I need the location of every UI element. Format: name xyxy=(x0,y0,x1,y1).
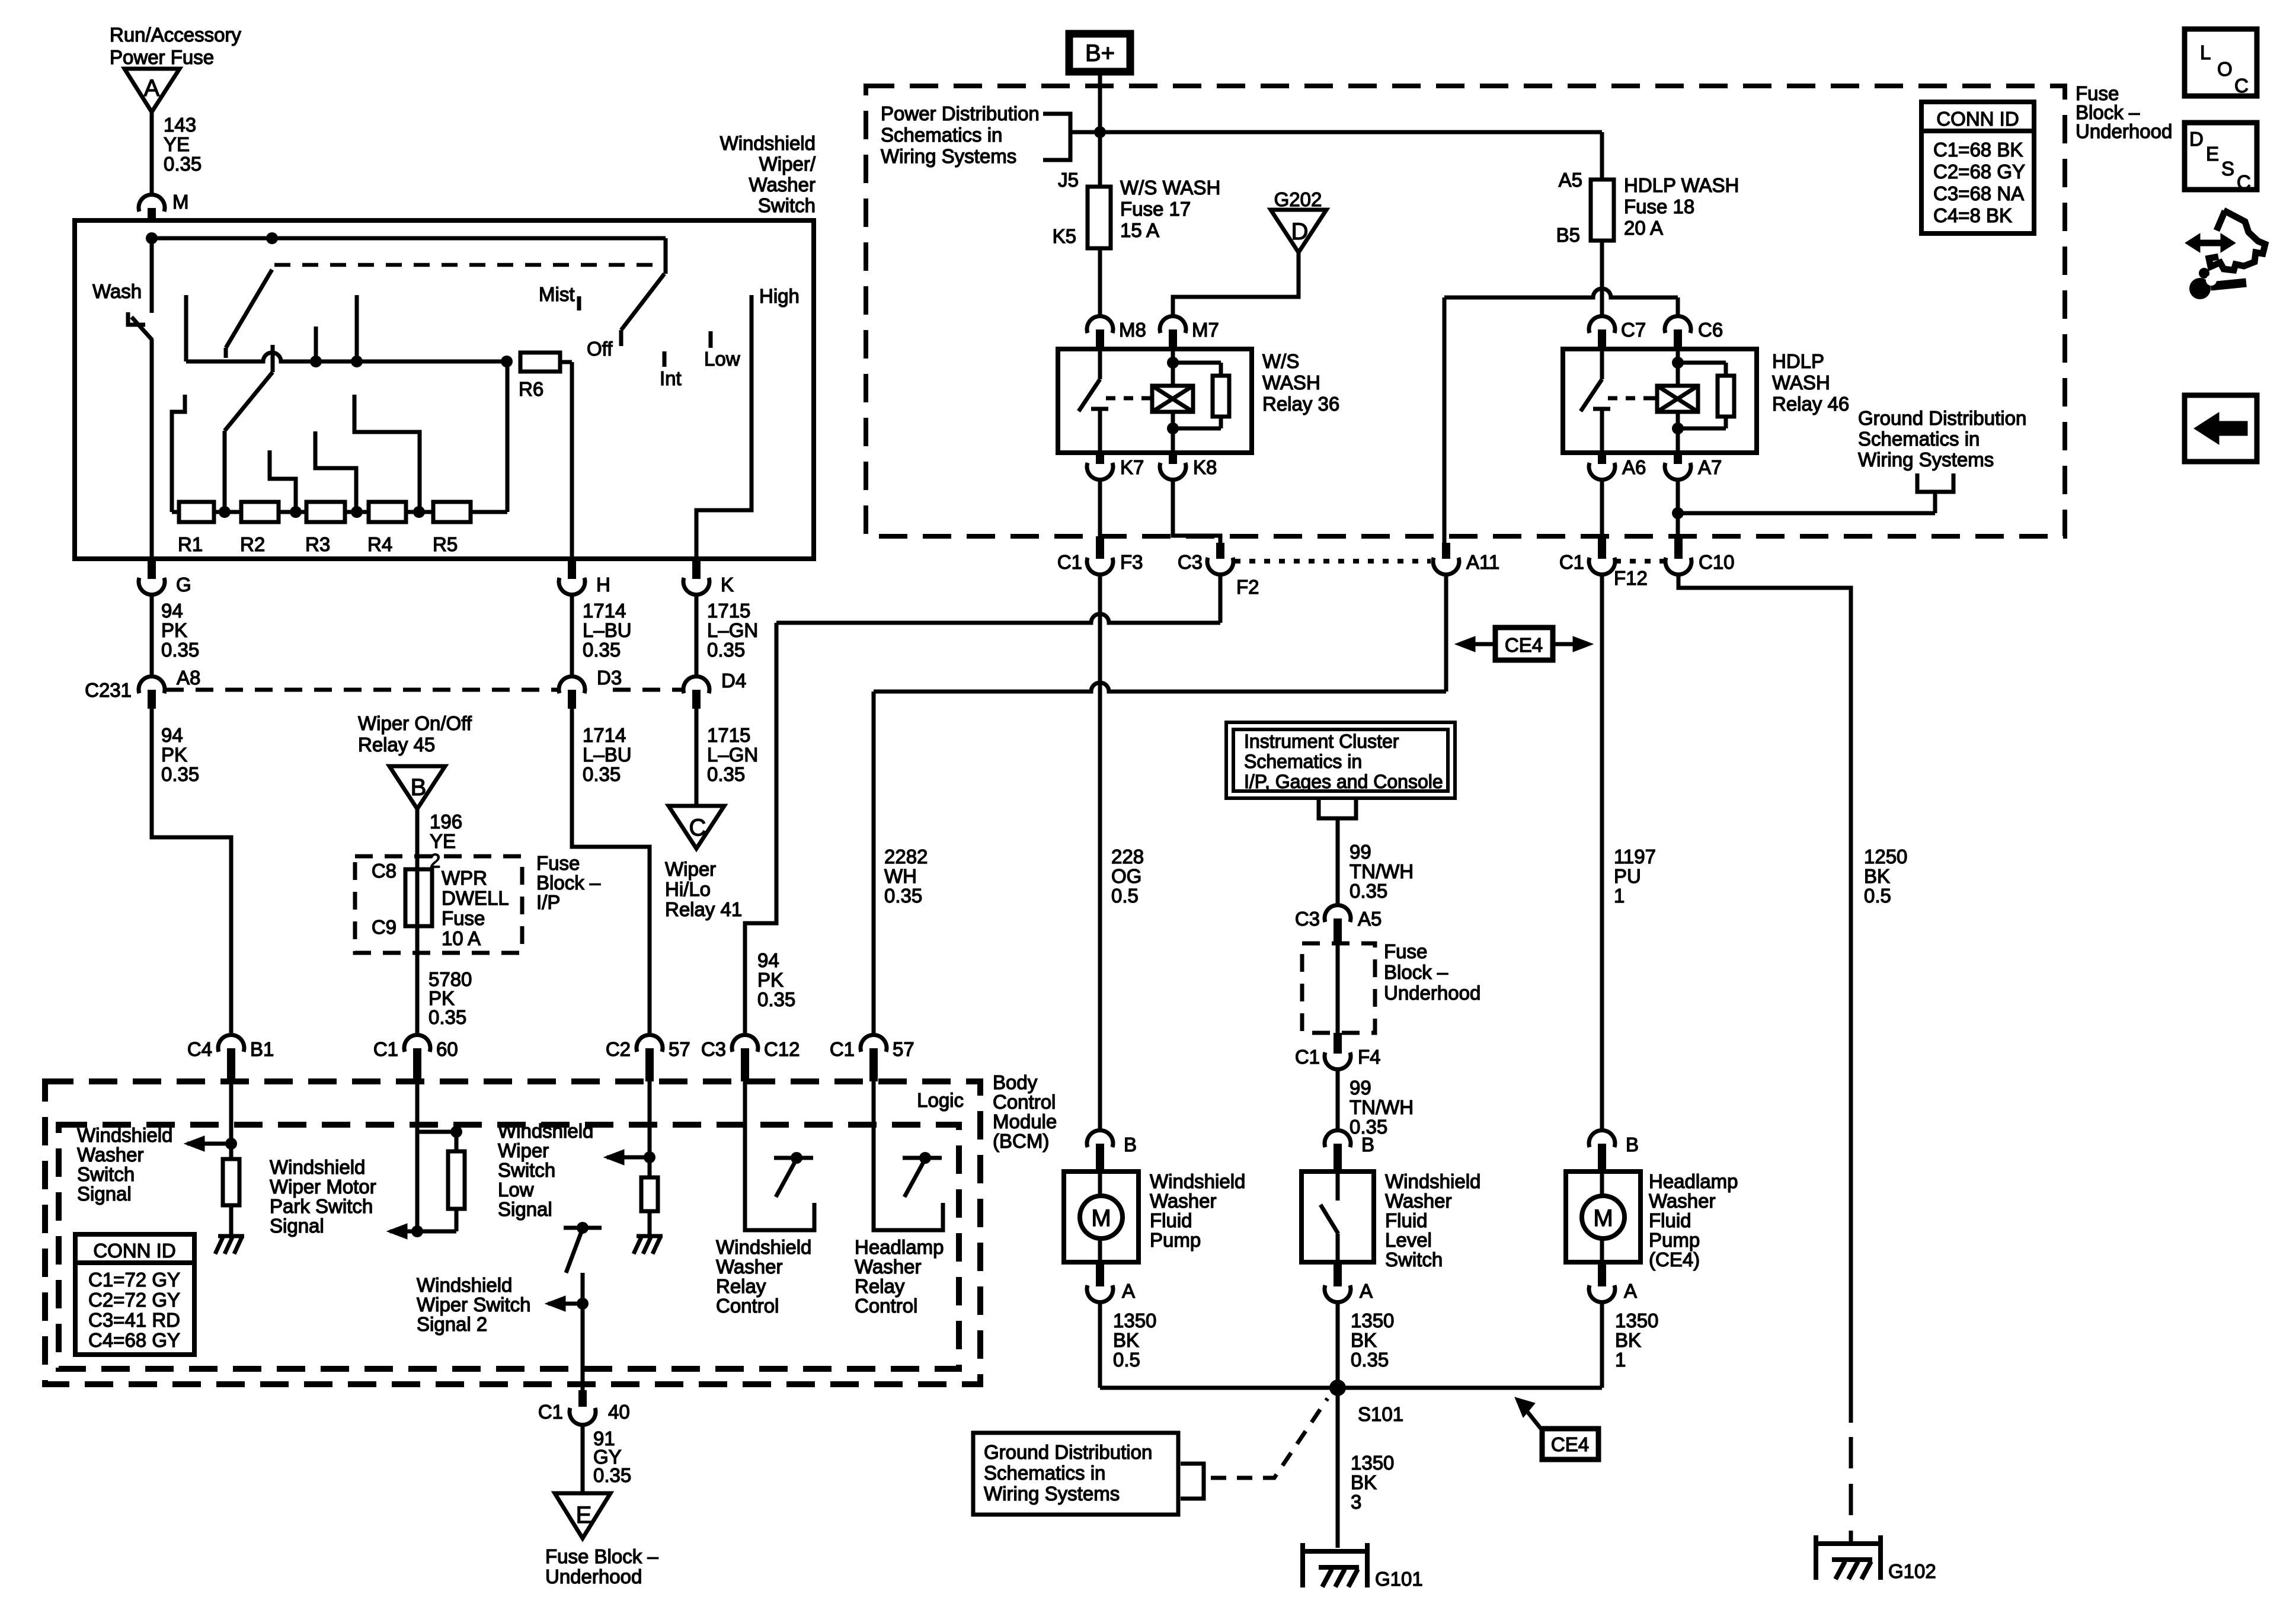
svg-text:R3: R3 xyxy=(305,533,330,555)
headlamp washer fluid pump xyxy=(1566,1172,1641,1262)
svg-text:M: M xyxy=(1593,1205,1613,1231)
svg-text:C1: C1 xyxy=(1057,551,1082,573)
switch internal bus wire xyxy=(146,232,666,244)
label Mist xyxy=(539,283,579,311)
svg-text:D3: D3 xyxy=(597,667,622,689)
svg-text:C: C xyxy=(689,815,706,841)
svg-text:B5: B5 xyxy=(1556,224,1580,246)
W/S WASH relay 36 box xyxy=(1058,349,1252,453)
delay contact stubs xyxy=(316,295,357,361)
connector G xyxy=(139,559,191,596)
svg-text:E: E xyxy=(2206,143,2219,165)
dashed mist link xyxy=(274,263,662,267)
wire F2 to BCM C12 (94 PK 0.35) xyxy=(745,574,1220,1033)
wire B+ to fuse J5 xyxy=(1094,72,1106,187)
label Fuse Block - Underhood (bottom) xyxy=(545,1545,658,1587)
dotted line C3 to A11 xyxy=(1235,559,1431,564)
wire 99 TN/WH 0.35 (upper) xyxy=(1338,826,1414,905)
wire 1350 BK 0.5 xyxy=(1100,1302,1156,1388)
connector A (headlamp pump) xyxy=(1589,1262,1637,1302)
svg-text:Underhood: Underhood xyxy=(545,1566,642,1587)
park switch resistor xyxy=(448,1132,465,1231)
marker CE4 (ground bus) xyxy=(1515,1397,1598,1459)
ground G102 xyxy=(1814,1535,1936,1582)
svg-text:PK: PK xyxy=(161,619,187,641)
svg-text:C6: C6 xyxy=(1698,319,1723,341)
ground distribution bracket (bottom) xyxy=(1181,1464,1204,1499)
off blade xyxy=(621,274,664,346)
svg-text:C2: C2 xyxy=(606,1038,631,1060)
relay 36 resistor xyxy=(1173,363,1229,428)
svg-text:R5: R5 xyxy=(433,533,458,555)
svg-text:BK: BK xyxy=(1864,865,1890,887)
svg-text:Level: Level xyxy=(1385,1229,1432,1251)
label Body Control Module (BCM) xyxy=(993,1071,1057,1152)
svg-text:A: A xyxy=(144,75,160,101)
svg-text:W/S: W/S xyxy=(1262,350,1299,372)
svg-text:0.35: 0.35 xyxy=(583,639,621,661)
fuse block underhood small dashed box xyxy=(1302,943,1375,1033)
svg-text:Low: Low xyxy=(498,1179,534,1201)
label Windshield Wiper Switch Signal 2 xyxy=(417,1274,531,1335)
wire 1350 BK 1 xyxy=(1602,1302,1658,1388)
svg-text:C3: C3 xyxy=(701,1038,726,1060)
svg-text:K7: K7 xyxy=(1120,456,1144,478)
resistor R1 xyxy=(178,502,214,555)
WPR DWELL fuse 10A xyxy=(405,869,432,1033)
svg-text:Wiring Systems: Wiring Systems xyxy=(1858,449,1994,470)
label Power Distribution Schematics in Wiring Systems xyxy=(881,103,1040,167)
svg-text:WASH: WASH xyxy=(1262,372,1320,393)
svg-text:94: 94 xyxy=(757,949,779,971)
svg-text:C1: C1 xyxy=(1559,551,1584,573)
label Logic xyxy=(917,1089,964,1111)
logic inner dashed box xyxy=(59,1125,959,1369)
connector C3/A5 xyxy=(1295,905,1382,943)
svg-text:1350: 1350 xyxy=(1113,1310,1156,1331)
svg-text:Relay 46: Relay 46 xyxy=(1772,393,1849,415)
svg-text:10 A: 10 A xyxy=(442,927,481,949)
svg-text:0.5: 0.5 xyxy=(1864,885,1891,907)
connector BCM C3/C12 xyxy=(701,1035,800,1081)
svg-text:Schematics in: Schematics in xyxy=(1858,428,1980,450)
svg-text:Hi/Lo: Hi/Lo xyxy=(665,878,711,900)
label Off xyxy=(587,338,613,360)
instrument cluster bracket xyxy=(1319,798,1356,826)
svg-text:L: L xyxy=(2200,41,2211,63)
svg-text:1715: 1715 xyxy=(707,600,750,622)
svg-text:Windshield: Windshield xyxy=(77,1124,172,1146)
svg-text:(BCM): (BCM) xyxy=(993,1130,1049,1152)
fuse block CONN ID table xyxy=(1921,102,2034,233)
svg-text:F3: F3 xyxy=(1120,551,1143,573)
connector A6 xyxy=(1589,453,1646,480)
connector C7 xyxy=(1589,316,1646,349)
svg-text:BK: BK xyxy=(1351,1329,1377,1351)
svg-text:L–BU: L–BU xyxy=(583,744,632,766)
connector C1/F4 xyxy=(1295,1033,1381,1070)
svg-text:Fuse: Fuse xyxy=(536,852,580,874)
wire D to M7 xyxy=(1173,252,1299,316)
label C8 xyxy=(372,860,396,882)
svg-text:57: 57 xyxy=(669,1038,690,1060)
svg-text:Washer: Washer xyxy=(1385,1190,1451,1212)
svg-text:CONN ID: CONN ID xyxy=(93,1240,175,1262)
contact finger 1 xyxy=(172,395,185,512)
body control module outer dashed box xyxy=(45,1081,980,1384)
svg-text:Mist: Mist xyxy=(539,283,575,305)
svg-text:Switch: Switch xyxy=(77,1163,135,1185)
svg-text:C3=68 NA: C3=68 NA xyxy=(1933,183,2024,204)
svg-text:Ground Distribution: Ground Distribution xyxy=(984,1441,1152,1463)
low contact xyxy=(704,331,740,370)
dotted line F12 to C10 xyxy=(1615,559,1664,564)
svg-text:C231: C231 xyxy=(85,679,132,701)
svg-text:Windshield: Windshield xyxy=(498,1120,593,1142)
svg-text:Washer: Washer xyxy=(749,174,816,196)
fuse block I/P dashed box xyxy=(355,856,522,953)
svg-text:WH: WH xyxy=(884,865,917,887)
connector M7 xyxy=(1160,316,1219,349)
svg-text:L–GN: L–GN xyxy=(707,619,758,641)
svg-text:57: 57 xyxy=(893,1038,914,1060)
svg-text:Fluid: Fluid xyxy=(1150,1209,1192,1231)
resistor feed line xyxy=(186,295,513,367)
svg-text:WASH: WASH xyxy=(1772,372,1830,393)
windshield washer fluid level switch xyxy=(1302,1172,1374,1262)
svg-text:Schematics in: Schematics in xyxy=(881,124,1002,146)
svg-text:Block –: Block – xyxy=(536,872,601,894)
contact finger 4 xyxy=(354,395,420,512)
power distribution bracket xyxy=(1043,114,1070,160)
svg-text:Washer: Washer xyxy=(716,1256,782,1278)
svg-text:Relay 45: Relay 45 xyxy=(358,734,435,756)
label C9 xyxy=(372,916,396,938)
resistor R3 xyxy=(305,502,345,555)
svg-text:Signal: Signal xyxy=(77,1183,132,1205)
svg-text:99: 99 xyxy=(1350,841,1371,863)
svg-text:Fuse Block –: Fuse Block – xyxy=(545,1545,658,1567)
svg-text:228: 228 xyxy=(1111,846,1144,868)
svg-text:1: 1 xyxy=(1615,1349,1626,1371)
svg-text:C: C xyxy=(2234,75,2249,97)
svg-text:C3: C3 xyxy=(1295,908,1320,930)
svg-text:Wiper On/Off: Wiper On/Off xyxy=(358,712,472,734)
connector BCM C1/57 xyxy=(830,1035,914,1081)
connector B (washer pump) xyxy=(1087,1130,1137,1172)
svg-text:196: 196 xyxy=(430,811,462,833)
svg-text:TN/WH: TN/WH xyxy=(1350,1096,1414,1118)
wiper switch signal 2 switch xyxy=(564,1222,602,1390)
svg-text:143: 143 xyxy=(164,114,196,136)
svg-text:BK: BK xyxy=(1351,1471,1377,1493)
svg-text:0.35: 0.35 xyxy=(1350,880,1387,902)
svg-text:R1: R1 xyxy=(178,533,203,555)
svg-text:H: H xyxy=(596,574,610,596)
svg-text:C4=68 GY: C4=68 GY xyxy=(88,1329,180,1351)
svg-text:Control: Control xyxy=(716,1295,779,1317)
wire 143 YE 0.35 xyxy=(152,112,202,196)
svg-text:O: O xyxy=(2217,58,2233,80)
ground distribution branch xyxy=(1678,473,1953,513)
label Fuse Block - Underhood (top right) xyxy=(2076,82,2172,142)
wiper motor park switch signal wire xyxy=(417,1081,462,1231)
svg-text:0.35: 0.35 xyxy=(161,763,199,785)
svg-text:Relay: Relay xyxy=(855,1275,905,1297)
B+ battery feed box xyxy=(1069,34,1130,72)
svg-text:Off: Off xyxy=(587,338,613,360)
svg-text:J5: J5 xyxy=(1058,169,1079,191)
svg-text:Signal: Signal xyxy=(498,1198,552,1220)
svg-text:Headlamp: Headlamp xyxy=(855,1236,944,1258)
svg-text:Block –: Block – xyxy=(1384,961,1448,983)
svg-text:I/P: I/P xyxy=(536,891,560,913)
svg-text:R4: R4 xyxy=(367,533,392,555)
svg-text:C3: C3 xyxy=(1178,551,1203,573)
svg-text:C1=72 GY: C1=72 GY xyxy=(88,1269,180,1291)
svg-text:Module: Module xyxy=(993,1110,1057,1132)
BCM CONN ID table xyxy=(75,1234,194,1355)
svg-text:1714: 1714 xyxy=(583,724,626,746)
svg-text:Instrument Cluster: Instrument Cluster xyxy=(1244,731,1399,752)
legend DESC box xyxy=(2185,123,2257,193)
connector K xyxy=(683,559,734,596)
svg-text:D: D xyxy=(1291,219,1309,245)
fuse symbol E (Fuse Block Underhood) xyxy=(555,1493,610,1538)
svg-text:Windshield: Windshield xyxy=(1150,1170,1245,1192)
svg-text:94: 94 xyxy=(161,724,183,746)
svg-text:1250: 1250 xyxy=(1864,846,1907,868)
svg-text:C2=72 GY: C2=72 GY xyxy=(88,1289,180,1311)
wire 94 PK 0.35 to BCM xyxy=(152,709,231,1033)
power bus wire xyxy=(1070,132,1602,180)
connector C3/F2 xyxy=(1178,543,1259,598)
wire A7 to C10 xyxy=(1672,479,1684,536)
svg-text:Schematics in: Schematics in xyxy=(984,1462,1105,1484)
connector line C231 dashed xyxy=(166,688,683,692)
label Windshield Wiper Motor Park Switch Signal xyxy=(270,1156,376,1237)
high wire xyxy=(696,295,752,558)
svg-text:C1: C1 xyxy=(830,1038,855,1060)
svg-text:YE: YE xyxy=(164,133,190,155)
svg-text:BK: BK xyxy=(1113,1329,1139,1351)
label Windshield Washer Switch Signal xyxy=(77,1124,172,1205)
svg-text:L–GN: L–GN xyxy=(707,744,758,766)
svg-text:K5: K5 xyxy=(1053,225,1076,247)
legend LOC box xyxy=(2185,29,2257,97)
wire 1714 L-BU 0.35 to BCM xyxy=(572,709,650,1033)
legend back-arrow box xyxy=(2185,395,2257,462)
svg-text:Wiper/: Wiper/ xyxy=(759,153,816,175)
label Windshield Washer Relay Control xyxy=(716,1236,811,1317)
mist blade xyxy=(226,270,272,358)
svg-text:Windshield: Windshield xyxy=(716,1236,811,1258)
windshield washer switch signal wire xyxy=(184,1081,237,1159)
connector C1/F12 xyxy=(1559,536,1648,589)
svg-text:G101: G101 xyxy=(1375,1568,1423,1590)
fuse 18 HDLP WASH xyxy=(1556,169,1739,246)
svg-text:C1: C1 xyxy=(538,1401,563,1423)
connector C6 xyxy=(1665,316,1723,349)
label G202 xyxy=(1274,188,1322,210)
svg-text:R2: R2 xyxy=(240,533,265,555)
connector C1/F3 xyxy=(1057,536,1143,575)
svg-text:Wash: Wash xyxy=(92,280,142,302)
svg-text:C8: C8 xyxy=(372,860,396,882)
svg-text:A11: A11 xyxy=(1466,551,1499,573)
svg-text:0.35: 0.35 xyxy=(164,153,202,175)
svg-text:HDLP WASH: HDLP WASH xyxy=(1624,174,1739,196)
power feed label Run/Accessory Power Fuse xyxy=(110,24,241,68)
svg-text:Wiring Systems: Wiring Systems xyxy=(984,1483,1120,1505)
svg-text:PK: PK xyxy=(161,744,187,766)
relay 36 coil xyxy=(1145,349,1193,453)
svg-text:Signal: Signal xyxy=(270,1215,324,1237)
wire 1715 L-GN 0.35 (K) xyxy=(696,594,758,677)
svg-text:C12: C12 xyxy=(764,1038,800,1060)
relay 46 link xyxy=(1608,396,1652,401)
connector C10 xyxy=(1665,536,1735,575)
wire F12 to headlamp pump (1197 PU 1) xyxy=(1602,574,1656,1131)
svg-text:1197: 1197 xyxy=(1614,846,1656,868)
svg-text:M7: M7 xyxy=(1192,319,1219,341)
svg-text:20 A: 20 A xyxy=(1624,217,1663,239)
svg-text:TN/WH: TN/WH xyxy=(1350,860,1414,882)
svg-text:C10: C10 xyxy=(1699,551,1735,573)
svg-text:Fluid: Fluid xyxy=(1385,1209,1428,1231)
wash switch wire xyxy=(150,238,154,313)
wiper switch low signal wire xyxy=(604,1081,655,1177)
svg-text:Ground Distribution: Ground Distribution xyxy=(1858,407,2026,429)
wire K7 to F3 xyxy=(1098,479,1102,536)
svg-text:1350: 1350 xyxy=(1351,1310,1394,1331)
wire 94 PK 0.35 (G) xyxy=(152,594,199,677)
relay 46 switch xyxy=(1581,349,1610,453)
svg-text:Relay: Relay xyxy=(716,1275,766,1297)
svg-text:F4: F4 xyxy=(1358,1046,1381,1068)
svg-text:F2: F2 xyxy=(1236,576,1259,598)
connector C231 pin A8 xyxy=(139,667,200,709)
wire K8 to F2 xyxy=(1173,479,1220,543)
svg-text:Fuse 17: Fuse 17 xyxy=(1120,198,1191,220)
svg-text:Windshield: Windshield xyxy=(270,1156,365,1178)
svg-text:Underhood: Underhood xyxy=(2076,120,2172,142)
svg-text:Run/Accessory: Run/Accessory xyxy=(110,24,241,46)
label Headlamp Washer Relay Control xyxy=(855,1236,944,1317)
svg-text:A: A xyxy=(1122,1280,1135,1302)
label Windshield Washer Fluid Level Switch xyxy=(1385,1170,1480,1270)
resistor R6 xyxy=(519,353,572,400)
svg-text:PU: PU xyxy=(1614,865,1641,887)
connector C231 pin D4 xyxy=(683,670,746,709)
svg-text:Power Distribution: Power Distribution xyxy=(881,103,1040,124)
svg-text:Windshield: Windshield xyxy=(417,1274,512,1296)
resistor R4 xyxy=(367,502,406,555)
svg-text:Schematics in: Schematics in xyxy=(1244,751,1362,772)
svg-text:L–BU: L–BU xyxy=(583,619,632,641)
svg-text:Washer: Washer xyxy=(77,1144,143,1166)
relay 36 switch xyxy=(1079,349,1108,453)
washer signal ground xyxy=(215,1205,244,1254)
fuse 17 W/S WASH xyxy=(1053,169,1221,248)
svg-text:Wiring Systems: Wiring Systems xyxy=(881,145,1016,167)
svg-text:Logic: Logic xyxy=(917,1089,964,1111)
svg-text:WPR: WPR xyxy=(442,867,487,889)
svg-text:99: 99 xyxy=(1350,1077,1371,1099)
svg-text:A6: A6 xyxy=(1622,456,1646,478)
svg-text:M: M xyxy=(172,191,189,213)
svg-text:Headlamp: Headlamp xyxy=(1649,1170,1738,1192)
svg-text:Control: Control xyxy=(855,1295,917,1317)
svg-text:I/P, Gages and Console: I/P, Gages and Console xyxy=(1244,771,1443,792)
svg-text:K: K xyxy=(721,574,734,596)
svg-text:3: 3 xyxy=(1351,1491,1361,1513)
label Wash xyxy=(92,280,142,302)
connector B (headlamp pump) xyxy=(1589,1130,1639,1172)
wire 1350 BK 3 xyxy=(1338,1388,1394,1548)
svg-text:0.35: 0.35 xyxy=(583,763,621,785)
svg-text:C7: C7 xyxy=(1621,319,1646,341)
windshield wiper/washer switch box xyxy=(75,220,814,559)
washer signal resistor xyxy=(223,1159,239,1205)
svg-text:0.35: 0.35 xyxy=(161,639,199,661)
svg-text:0.35: 0.35 xyxy=(707,639,745,661)
wire F3 to washer pump (228 OG 0.5) xyxy=(1100,574,1144,1131)
HDLP WASH relay 46 box xyxy=(1563,349,1757,453)
svg-text:Fuse: Fuse xyxy=(1384,940,1427,962)
svg-text:S101: S101 xyxy=(1358,1403,1403,1425)
windshield washer relay control switch xyxy=(745,1081,814,1230)
svg-text:(CE4): (CE4) xyxy=(1649,1249,1700,1270)
instrument cluster box xyxy=(1226,722,1455,798)
svg-text:Switch: Switch xyxy=(498,1159,555,1181)
connector K7 xyxy=(1087,453,1144,480)
svg-text:C4: C4 xyxy=(187,1038,212,1060)
svg-text:Pump: Pump xyxy=(1150,1229,1201,1251)
svg-text:C1: C1 xyxy=(373,1038,398,1060)
relay 46 resistor xyxy=(1678,363,1734,428)
connector B (level switch) xyxy=(1325,1130,1374,1172)
svg-text:A5: A5 xyxy=(1559,169,1582,191)
svg-text:D: D xyxy=(2189,128,2204,150)
wire fuse17 to M8 xyxy=(1098,248,1102,316)
svg-text:K8: K8 xyxy=(1193,456,1217,478)
svg-text:C1: C1 xyxy=(1295,1046,1320,1068)
resistor R5 xyxy=(433,502,471,555)
svg-text:1715: 1715 xyxy=(707,724,750,746)
svg-text:D4: D4 xyxy=(721,670,746,692)
svg-text:High: High xyxy=(759,285,800,307)
svg-text:Washer: Washer xyxy=(1649,1190,1715,1212)
svg-text:S: S xyxy=(2221,158,2234,180)
svg-text:A8: A8 xyxy=(177,667,200,689)
wire 99 TN/WH 0.35 (lower) xyxy=(1338,1069,1414,1138)
svg-text:Fuse 18: Fuse 18 xyxy=(1624,196,1694,217)
wire 1715 L-GN 0.35 to relay C xyxy=(696,709,758,806)
svg-text:Relay 36: Relay 36 xyxy=(1262,393,1339,415)
svg-text:Pump: Pump xyxy=(1649,1229,1700,1251)
fuse block underhood dashed box xyxy=(866,86,2065,536)
connector K8 xyxy=(1160,453,1217,480)
label Fuse Block - Underhood (middle) xyxy=(1384,940,1480,1004)
connector C231 pin D3 xyxy=(559,667,622,709)
connector A7 xyxy=(1665,453,1722,480)
connector A11 xyxy=(1433,543,1499,575)
svg-text:Relay 41: Relay 41 xyxy=(665,898,742,920)
wire 196 YE 2 xyxy=(417,809,462,872)
dashed wire to G102 xyxy=(1849,1437,1853,1542)
wire off-blade feed xyxy=(664,238,668,274)
